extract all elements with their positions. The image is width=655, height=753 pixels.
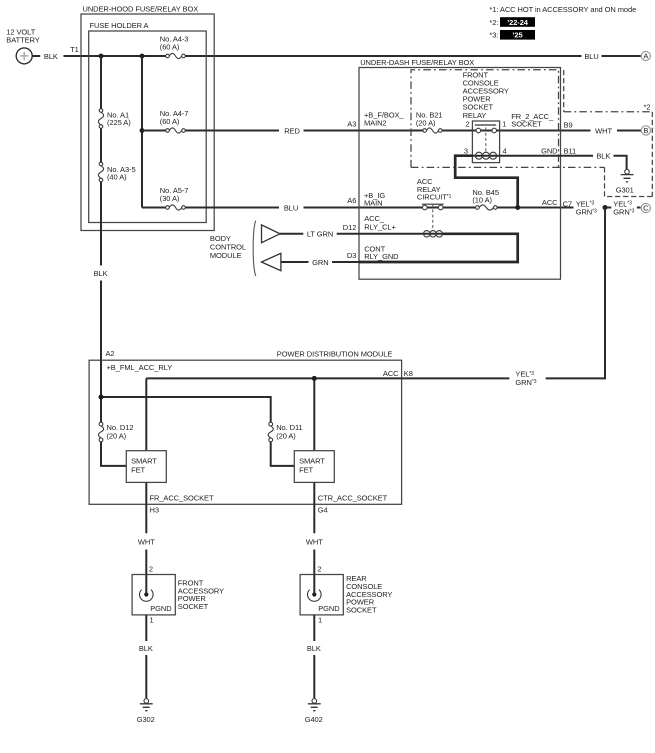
svg-text:POWER DISTRIBUTION MODULE: POWER DISTRIBUTION MODULE (277, 350, 393, 359)
svg-text:(30 A): (30 A) (160, 194, 180, 203)
svg-text:BLK: BLK (44, 52, 58, 61)
svg-text:MAIN2: MAIN2 (364, 118, 387, 127)
junction dot A2 branch (99, 395, 104, 400)
junction dot at T1 bus x=101 (99, 54, 104, 59)
svg-text:G4: G4 (318, 505, 328, 514)
svg-text:D3: D3 (347, 251, 356, 260)
svg-text:B11: B11 (564, 146, 577, 155)
svg-text:LT GRN: LT GRN (307, 230, 333, 239)
svg-text:A6: A6 (347, 196, 356, 205)
note legend *3 (489, 30, 535, 40)
svg-text:CTR_ACC_SOCKET: CTR_ACC_SOCKET (318, 494, 388, 503)
wire FET2 output to socket2 (313, 482, 315, 574)
pin A3 (347, 119, 356, 128)
svg-text:MAIN: MAIN (364, 198, 382, 207)
svg-text:UNDER-DASH FUSE/RELAY BOX: UNDER-DASH FUSE/RELAY BOX (360, 58, 474, 67)
ACC relay circuit contact (422, 204, 444, 230)
smart fet U2 box (126, 451, 166, 483)
net ACC label C7 (542, 198, 558, 207)
svg-text:*2:: *2: (489, 18, 498, 27)
smart fet U3 box (294, 451, 334, 483)
socket pin 2 front (149, 564, 153, 573)
svg-text:1: 1 (318, 616, 322, 625)
svg-text:2: 2 (317, 564, 321, 573)
svg-text:+B_FML_ACC_RLY: +B_FML_ACC_RLY (107, 363, 173, 372)
relay U1 box (472, 121, 499, 163)
label BLK B11 row (596, 152, 610, 161)
svg-text:2: 2 (149, 564, 153, 573)
buffer triangle input GRN (261, 253, 281, 270)
ground G302 (137, 699, 155, 724)
socket J2 REAR CONSOLE ACCESSORY POWER SOCKET (300, 575, 343, 615)
svg-text:A3: A3 (347, 119, 356, 128)
fuse A4-7 (60 A) (160, 109, 189, 133)
pin A2 (106, 349, 115, 358)
svg-text:FR_ACC_SOCKET: FR_ACC_SOCKET (150, 494, 214, 503)
fuse A5-7 (30 A) (160, 186, 189, 210)
label LT GRN (307, 230, 333, 239)
battery B1 12 VOLT BATTERY (6, 27, 39, 64)
svg-text:4: 4 (503, 147, 507, 156)
junction dot pin3 wire on ACC row (515, 205, 520, 210)
connector circle A (641, 51, 650, 60)
svg-text:’25: ’25 (512, 31, 522, 40)
svg-text:RLY_CL+: RLY_CL+ (364, 222, 396, 231)
ground G402 (305, 699, 323, 724)
svg-text:2: 2 (466, 119, 470, 128)
label REAR CONSOLE ACCESSORY POWER SOCKET (346, 574, 392, 614)
svg-text:1: 1 (150, 616, 154, 625)
net GND label (541, 146, 558, 155)
label BLU row A6 (284, 203, 298, 212)
svg-text:G302: G302 (137, 715, 155, 724)
fuse D11 (20 A) (268, 422, 303, 442)
wire LT GRN row y=233.8 (280, 233, 424, 235)
label BLK socket2 (307, 644, 321, 653)
label ACC RELAY CIRCUIT*1 (417, 177, 452, 202)
svg-text:D12: D12 (343, 223, 357, 232)
wire ACC row inside PDM y=376.3 (146, 378, 401, 450)
svg-text:BATTERY: BATTERY (6, 35, 39, 44)
label WHT B9 row (595, 126, 612, 135)
svg-text:MODULE: MODULE (210, 251, 242, 260)
label BLU top wire (584, 52, 598, 61)
net ACC label K8 (383, 369, 399, 378)
svg-text:*2: *2 (644, 103, 651, 112)
svg-text:SMART: SMART (299, 457, 325, 466)
svg-text:B: B (643, 126, 648, 135)
svg-text:SOCKET: SOCKET (178, 602, 209, 611)
svg-text:(40 A): (40 A) (107, 173, 127, 182)
svg-text:GND: GND (541, 146, 558, 155)
svg-text:GRN: GRN (312, 258, 328, 267)
junction dot ACC to PDM (603, 205, 608, 210)
wire +B branch inside PDM (101, 360, 295, 466)
svg-text:PGND: PGND (150, 604, 172, 613)
svg-text:BLK: BLK (307, 644, 321, 653)
junction dot ACC to FET2 (312, 376, 317, 381)
pin D3 (347, 251, 356, 260)
relay pin 1 (502, 119, 506, 128)
box POWER DISTRIBUTION MODULE (89, 350, 402, 505)
fuse A4-3 (60 A) (160, 34, 189, 58)
fuse B21 (20 A) (416, 111, 443, 134)
fuse B45 (10 A) (472, 188, 499, 210)
svg-text:BLK: BLK (139, 644, 153, 653)
svg-text:(20 A): (20 A) (416, 119, 436, 128)
socket pin 1 rear (318, 616, 322, 625)
label FRONT CONSOLE ACCESSORY POWER SOCKET RELAY (463, 70, 509, 120)
label YEL*3 GRN*3 right of junction (613, 199, 634, 216)
junction dot at bus x=142 (140, 54, 145, 59)
box UNDER-HOOD FUSE/RELAY BOX (81, 4, 214, 230)
net FR_ACC_SOCKET (150, 494, 214, 503)
label BLK socket1 (139, 644, 153, 653)
wire thick D12 coil to loop (359, 234, 518, 262)
svg-text:RLY_GND: RLY_GND (364, 252, 399, 261)
label BLK battery wire (44, 52, 58, 61)
label BLK x=101 wire (94, 269, 108, 278)
svg-text:(20 A): (20 A) (276, 431, 296, 440)
svg-text:FET: FET (299, 465, 313, 474)
label WHT socket2 (306, 538, 323, 547)
wire GND row y=155.7 pin4 to B11 (500, 156, 627, 170)
svg-text:(225 A): (225 A) (107, 118, 131, 127)
label YEL*3 GRN*3 left of junction (576, 199, 597, 216)
label WHT socket1 (138, 538, 155, 547)
wire vertical x=101 from bus to PDM (100, 56, 102, 361)
box FUSE HOLDER A (89, 21, 207, 222)
svg-text:C7: C7 (563, 199, 572, 208)
relay contact terminals (476, 128, 496, 133)
net CONT RLY_GND (364, 245, 399, 262)
svg-text:BLU: BLU (584, 52, 598, 61)
dash-dot enclosure FRONT CONSOLE ACCESSORY POWER SOCKET RELAY (411, 70, 605, 168)
net ACC_RLY_CL+ (364, 214, 396, 231)
buffer triangle output LT GRN (262, 225, 281, 243)
relay actuator dashed link (485, 128, 487, 152)
pin H3 (150, 505, 159, 514)
socket pin 2 rear (317, 564, 321, 573)
pin D12 (343, 223, 357, 232)
svg-text:’22-24: ’22-24 (507, 18, 529, 27)
svg-text:WHT: WHT (138, 538, 155, 547)
connector circle B (641, 126, 650, 135)
relay contact bar (475, 124, 496, 126)
svg-text:(20 A): (20 A) (107, 431, 127, 440)
wire K8 row y=376.3 (402, 377, 605, 379)
svg-text:ACC: ACC (383, 369, 399, 378)
svg-text:1: 1 (502, 119, 506, 128)
wire BLU row y=207.5 (142, 207, 641, 209)
bracket BODY CONTROL MODULE (253, 221, 256, 276)
svg-text:G301: G301 (616, 186, 634, 195)
wire main +B bus y=56 (64, 55, 642, 57)
svg-text:BLK: BLK (596, 152, 610, 161)
svg-text:FUSE HOLDER A: FUSE HOLDER A (90, 21, 149, 30)
note legend *2 (489, 17, 535, 27)
svg-text:FET: FET (131, 465, 145, 474)
net +B_F/BOX_MAIN2 (364, 110, 404, 127)
pin G4 (318, 505, 328, 514)
net CTR_ACC_SOCKET (318, 494, 388, 503)
wire RED row y=130.5 (142, 130, 641, 132)
junction dot x=142 RED row (140, 128, 145, 133)
svg-text:C: C (643, 204, 649, 213)
wire battery stub (32, 55, 40, 57)
svg-text:A: A (643, 52, 648, 61)
fuse A1 (225 A) (98, 109, 131, 129)
ground G301 (616, 169, 634, 194)
pin K8 (404, 369, 413, 378)
svg-text:UNDER-HOOD FUSE/RELAY BOX: UNDER-HOOD FUSE/RELAY BOX (83, 4, 199, 13)
svg-text:K8: K8 (404, 369, 413, 378)
wire socket2 to ground (313, 615, 315, 698)
svg-text:G402: G402 (305, 715, 323, 724)
net +B_IG MAIN (364, 191, 385, 207)
node T1 (70, 45, 79, 54)
svg-text:SOCKET: SOCKET (346, 605, 377, 614)
wire socket1 to ground (145, 615, 147, 698)
relay pin 2 (466, 119, 470, 128)
net +B_FML_ACC_RLY (107, 363, 173, 372)
svg-text:ACC: ACC (542, 198, 558, 207)
note legend *1 (489, 5, 636, 14)
svg-text:SMART: SMART (131, 457, 157, 466)
wire GRN row y=262 (281, 261, 359, 263)
dashed variant region *2 (564, 70, 653, 197)
relay pin 3 (464, 147, 468, 156)
pin A6 (347, 196, 356, 205)
svg-text:CIRCUIT*1: CIRCUIT*1 (417, 193, 452, 202)
svg-text:B9: B9 (564, 121, 573, 130)
svg-text:(10 A): (10 A) (472, 196, 492, 205)
svg-text:BLU: BLU (284, 203, 298, 212)
label BODY CONTROL MODULE (210, 234, 246, 260)
svg-text:*3:: *3: (489, 31, 498, 40)
svg-text:WHT: WHT (306, 538, 323, 547)
svg-text:PGND: PGND (318, 604, 340, 613)
svg-text:A2: A2 (106, 349, 115, 358)
svg-text:SOCKET: SOCKET (511, 120, 542, 129)
box UNDER-DASH FUSE/RELAY BOX (359, 58, 561, 279)
svg-text:(60 A): (60 A) (160, 117, 180, 126)
svg-text:T1: T1 (70, 45, 79, 54)
wire FET1 output to socket1 (145, 482, 147, 574)
svg-text:H3: H3 (150, 505, 159, 514)
svg-text:3: 3 (464, 147, 468, 156)
svg-text:(60 A): (60 A) (160, 42, 180, 51)
net FR_2_ACC_SOCKET (511, 112, 554, 129)
svg-text:WHT: WHT (595, 126, 612, 135)
pin C7 (563, 199, 572, 208)
label FRONT ACCESSORY POWER SOCKET (178, 578, 224, 611)
socket pin 1 front (150, 616, 154, 625)
pin B9 (564, 121, 573, 130)
label YEL*3 GRN*3 K8 row (515, 370, 536, 387)
wire pin3 loop to ACC row (455, 156, 518, 206)
svg-text:BLK: BLK (94, 269, 108, 278)
coil ACC relay circuit (424, 231, 443, 237)
relay pin 4 (503, 147, 507, 156)
fuse A3-5 (40 A) (98, 162, 135, 182)
label RED (284, 126, 300, 135)
relay coil (472, 152, 499, 159)
label GRN (312, 258, 328, 267)
fuse D12 (20 A) (98, 422, 133, 442)
wire YEL/GRN vertical x=605 to K8 row (604, 208, 606, 379)
socket J1 FRONT ACCESSORY POWER SOCKET (132, 575, 175, 615)
wire vertical x=142 from bus to BLU row (141, 56, 143, 208)
pin B11 (564, 146, 577, 155)
connector circle C (641, 203, 650, 212)
svg-text:*1: ACC HOT in ACCESSORY and O: *1: ACC HOT in ACCESSORY and ON mode (489, 5, 636, 14)
svg-text:RED: RED (284, 126, 300, 135)
